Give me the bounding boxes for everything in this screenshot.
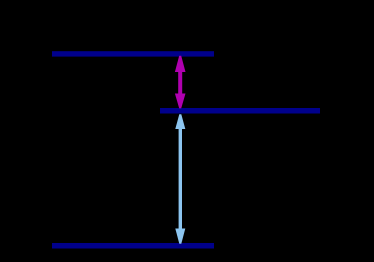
upper energy level line: [52, 51, 214, 56]
light blue double-headed arrow (lower transition): [175, 114, 185, 244]
intermediate energy level line: [160, 108, 320, 114]
ground energy level line: [52, 243, 214, 249]
magenta double-headed arrow (upper transition): [175, 56, 186, 109]
